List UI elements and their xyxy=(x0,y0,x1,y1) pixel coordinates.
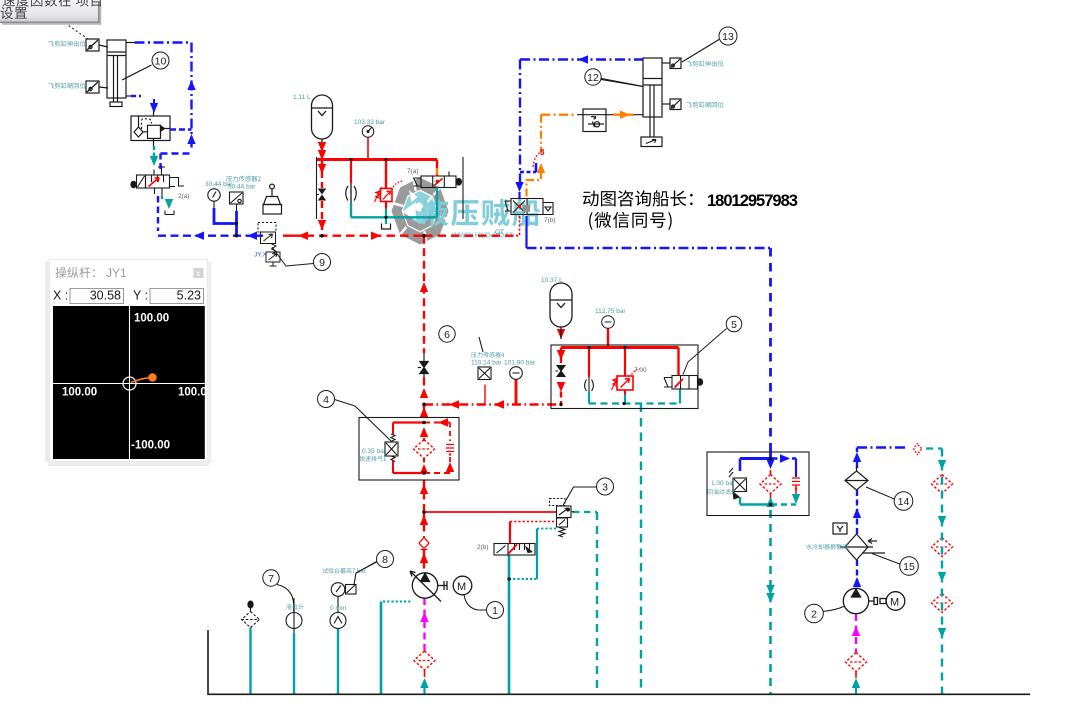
svg-text:5.23: 5.23 xyxy=(177,289,201,303)
svg-text:7(b): 7(b) xyxy=(544,217,556,224)
svg-text:2(a): 2(a) xyxy=(178,193,190,200)
svg-text:30.58: 30.58 xyxy=(90,289,121,303)
svg-text:112.75 bar: 112.75 bar xyxy=(595,308,626,315)
svg-text:10.37 L: 10.37 L xyxy=(541,277,563,284)
svg-text:9: 9 xyxy=(319,257,325,269)
svg-text:18012957983: 18012957983 xyxy=(707,192,798,210)
svg-text:M: M xyxy=(457,581,466,593)
svg-text:OT: OT xyxy=(495,229,504,236)
svg-text:Y :: Y : xyxy=(133,289,148,303)
svg-text:7: 7 xyxy=(268,573,274,585)
svg-text:14: 14 xyxy=(898,496,910,508)
svg-text:5: 5 xyxy=(731,319,737,331)
svg-text:6: 6 xyxy=(444,329,450,341)
svg-text:12: 12 xyxy=(587,72,599,84)
svg-text:15: 15 xyxy=(903,561,915,573)
svg-text:JY1: JY1 xyxy=(106,266,127,280)
svg-text:100.00: 100.00 xyxy=(62,387,97,399)
svg-text:0 mm: 0 mm xyxy=(330,605,346,612)
svg-text:101.90 bar: 101.90 bar xyxy=(504,360,536,367)
svg-text:JY.X: JY.X xyxy=(254,252,268,259)
svg-text:30.44 bar: 30.44 bar xyxy=(228,184,256,191)
svg-text:100.00: 100.00 xyxy=(134,313,169,325)
svg-text:8: 8 xyxy=(382,554,388,566)
svg-text:7(a): 7(a) xyxy=(407,168,419,175)
svg-text:x: x xyxy=(196,269,201,279)
svg-text:103.33 bar: 103.33 bar xyxy=(354,119,386,126)
svg-text:2: 2 xyxy=(811,609,817,621)
svg-text:7.00: 7.00 xyxy=(634,367,647,374)
svg-text:13: 13 xyxy=(722,31,734,43)
svg-text:0.35 bar: 0.35 bar xyxy=(362,448,387,455)
svg-text:100.0: 100.0 xyxy=(178,387,207,399)
svg-text:4: 4 xyxy=(323,394,329,406)
svg-text:1.11 L: 1.11 L xyxy=(293,94,311,101)
svg-text:-100.00: -100.00 xyxy=(131,440,170,452)
svg-text:8: 8 xyxy=(540,148,545,157)
svg-text:M: M xyxy=(890,597,899,609)
svg-text:10: 10 xyxy=(155,56,167,68)
svg-text:1.00 bar: 1.00 bar xyxy=(711,480,736,487)
svg-text:1: 1 xyxy=(492,605,498,617)
svg-text:110.14 bar: 110.14 bar xyxy=(471,360,502,367)
svg-text:3: 3 xyxy=(602,482,608,494)
svg-text:X :: X : xyxy=(53,289,68,303)
svg-text:2(b): 2(b) xyxy=(477,544,489,551)
